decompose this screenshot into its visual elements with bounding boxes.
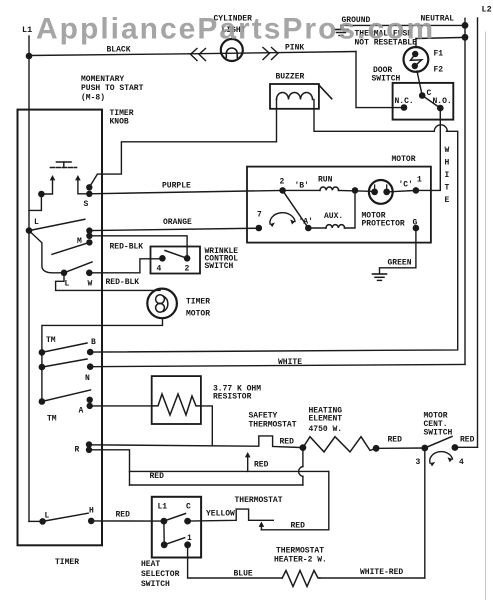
thermostat heater 2W [274, 547, 327, 587]
wire RED (H to heat selector L1) [91, 511, 164, 522]
heat selector switch [141, 497, 201, 589]
wire resistor to R-top net [201, 406, 212, 445]
svg-text:N: N [85, 374, 90, 383]
svg-text:4750 W.: 4750 W. [309, 425, 343, 434]
label WHITE (vertical, door switch wire) [445, 146, 450, 205]
svg-text:H: H [89, 507, 94, 516]
svg-text:RED: RED [280, 438, 295, 447]
svg-text:SELECTOR: SELECTOR [141, 570, 180, 579]
svg-text:SAFETY: SAFETY [249, 412, 278, 421]
push arrow 2 (to S) [75, 175, 89, 194]
buzzer [270, 73, 332, 109]
timer L/W contacts (lower) [61, 262, 93, 289]
svg-text:4: 4 [157, 265, 162, 274]
svg-text:WHITE-RED: WHITE-RED [360, 568, 403, 577]
svg-text:A: A [79, 407, 84, 416]
svg-text:E: E [445, 196, 450, 205]
motor terminal 1 'C' [387, 176, 422, 194]
cylinder light lamp [214, 15, 253, 62]
wire L1 feed (vertical into timer, down to H-switch) [28, 56, 30, 521]
svg-text:T: T [445, 184, 450, 193]
motor terminal 2 [279, 178, 309, 194]
wire BLACK (top horizontal) [29, 46, 356, 56]
svg-text:SWITCH: SWITCH [141, 580, 170, 589]
svg-text:L: L [65, 280, 70, 289]
connector chevrons right (>>) [263, 48, 278, 60]
node A contacts [79, 397, 93, 416]
wire WHITE (N to neutral) [90, 358, 465, 367]
ground (motor) [373, 274, 387, 280]
thermostat heater arrow [259, 522, 265, 530]
svg-text:THERMOSTAT: THERMOSTAT [235, 496, 283, 505]
svg-text:RED: RED [150, 472, 165, 481]
svg-text:MOTOR: MOTOR [186, 310, 210, 319]
node heating junction [300, 444, 307, 451]
wire RED-BLK (M to wrinkle control 2) [89, 236, 187, 258]
svg-text:C: C [427, 89, 432, 98]
svg-text:ELEMENT: ELEMENT [309, 415, 343, 424]
wire BLUE (heat selector 1 down) [188, 545, 283, 579]
svg-text:SWITCH: SWITCH [424, 429, 453, 438]
node NEUTRAL junction dots [462, 18, 469, 40]
wire timer motor top lead [56, 273, 160, 291]
svg-text:7: 7 [257, 211, 262, 220]
svg-text:'B': 'B' [295, 182, 309, 191]
svg-text:HEAT: HEAT [141, 560, 160, 569]
wire RED from R-bottom [89, 450, 329, 485]
heating element 4750 W [303, 407, 380, 452]
wire GREEN to ground [380, 228, 416, 273]
svg-text:TIMER: TIMER [55, 558, 79, 567]
motor terminal G [413, 219, 420, 232]
svg-text:1: 1 [417, 176, 422, 185]
svg-text:W: W [88, 280, 93, 289]
svg-text:ORANGE: ORANGE [163, 218, 192, 227]
svg-text:I: I [445, 171, 450, 180]
svg-text:THERMOSTAT: THERMOSTAT [276, 547, 324, 556]
motor AUX winding [308, 190, 355, 228]
svg-text:L1: L1 [158, 503, 168, 512]
wire R-top to safety thermostat / heating junction [89, 436, 303, 448]
wire PINK (to door switch N.C.) [285, 44, 404, 108]
timer H/L contacts (bottom) [29, 507, 94, 525]
svg-text:4: 4 [459, 458, 464, 467]
safety thermostat heater arrow [245, 452, 269, 471]
node N contact [85, 363, 93, 383]
svg-text:L: L [45, 512, 50, 521]
svg-text:RED: RED [254, 461, 269, 470]
svg-text:BLUE: BLUE [234, 570, 253, 579]
svg-text:2: 2 [185, 265, 190, 274]
svg-text:B: B [91, 338, 96, 347]
timer TM contacts [39, 336, 91, 424]
wrinkle control switch [151, 247, 239, 274]
svg-text:BLACK: BLACK [107, 46, 131, 55]
ground (top, at neutral) [334, 16, 371, 36]
resistor 3.77 K OHM [152, 376, 262, 424]
node S contacts [84, 184, 93, 209]
node B contact [87, 338, 96, 355]
wire NEUTRAL (top horizontal) [341, 15, 465, 26]
wire heating junction drop (hops RED wire) [130, 448, 303, 485]
svg-text:HEATER-2 W.: HEATER-2 W. [274, 556, 327, 565]
node M contacts [52, 227, 93, 254]
scan border artifact right edge [485, 32, 487, 600]
push arrow 1 [38, 175, 55, 197]
svg-text:H: H [445, 159, 450, 168]
wire A to resistor [90, 405, 152, 407]
svg-text:KNOB: KNOB [110, 118, 129, 127]
connector chevrons left (<<) [191, 49, 206, 61]
svg-text:TIMER: TIMER [186, 298, 210, 307]
node L1 [22, 25, 32, 59]
motor centrifugal switch [416, 412, 465, 468]
svg-text:RED-BLK: RED-BLK [106, 278, 140, 287]
node motor junction (RUN/AUX) [352, 187, 359, 194]
wire timer motor bottom lead (to TM column) [42, 318, 163, 401]
svg-text:L2: L2 [482, 5, 492, 15]
svg-text:TM: TM [46, 336, 56, 345]
label MOMENTARY PUSH TO START [81, 75, 144, 103]
wire YELLOW + operating thermostat [188, 496, 283, 521]
svg-text:3: 3 [416, 458, 421, 467]
label TIMER KNOB [110, 109, 134, 127]
wire push contact to L1 feed [29, 194, 41, 210]
svg-text:S: S [84, 200, 89, 209]
svg-text:AppliancePartsPros.com: AppliancePartsPros.com [36, 13, 435, 46]
timer L contact (upper) [26, 218, 85, 234]
wire L2 feed (right vertical down to motor cent. switch) [477, 18, 479, 447]
motor start switch blade (2 to A) [283, 190, 313, 231]
wire PURPLE (S to motor terminal 2) [89, 182, 282, 194]
svg-text:AUX.: AUX. [324, 212, 343, 221]
wire L to lower L contact [29, 231, 64, 273]
wire RED-BLK (W to wrinkle control 4) [89, 259, 162, 287]
motor protector [362, 180, 405, 229]
svg-text:TM: TM [47, 415, 57, 424]
wire door switch N.O. to motor terminal 1 [416, 108, 440, 190]
wire buzzer right leg (to timer B, hops over N.O. wire) [90, 100, 458, 353]
svg-text:L1: L1 [22, 25, 32, 35]
svg-text:BUZZER: BUZZER [276, 73, 305, 82]
svg-text:RESISTOR: RESISTOR [213, 393, 252, 402]
svg-text:THERMOSTAT: THERMOSTAT [249, 421, 297, 430]
svg-text:MOTOR: MOTOR [392, 155, 416, 164]
motor RUN winding [283, 176, 375, 192]
safety thermostat labels [249, 412, 297, 447]
svg-text:PROTECTOR: PROTECTOR [362, 220, 405, 229]
motor terminal 7 [255, 211, 262, 232]
thermal fuse F1/F2 [355, 30, 466, 96]
svg-text:PUSH TO START: PUSH TO START [81, 84, 144, 93]
node R contacts [75, 441, 93, 454]
timer motor [147, 289, 210, 319]
wire ORANGE (M to motor terminal 7) [89, 218, 258, 231]
push-to-start button (mechanical bar) [51, 162, 77, 168]
svg-text:RED: RED [116, 511, 131, 520]
svg-text:2: 2 [280, 178, 285, 187]
svg-text:PURPLE: PURPLE [162, 182, 191, 191]
motor box [247, 155, 431, 243]
wire neutral vertical (down right side to WHITE wire) [464, 37, 466, 364]
wire RED (element to cent. switch 3) [376, 436, 425, 449]
svg-text:C: C [186, 503, 191, 512]
svg-text:GREEN: GREEN [388, 259, 412, 268]
svg-text:RED: RED [460, 436, 475, 445]
svg-text:RED-BLK: RED-BLK [110, 243, 144, 252]
svg-text:R: R [75, 446, 80, 455]
svg-text:RED: RED [388, 436, 403, 445]
svg-text:MOMENTARY: MOMENTARY [81, 75, 124, 84]
svg-text:L: L [34, 218, 39, 227]
timer box [18, 110, 103, 567]
svg-text:SWITCH: SWITCH [205, 262, 234, 271]
wire RED (cent. switch 4 to L2) [455, 436, 478, 448]
svg-text:RUN: RUN [318, 176, 333, 185]
svg-text:F1: F1 [434, 50, 444, 59]
svg-text:'C': 'C' [399, 181, 413, 190]
node L2 [482, 5, 492, 15]
svg-text:(M-8): (M-8) [81, 94, 105, 103]
wire RED (bias heater loop) [261, 471, 328, 530]
svg-text:W: W [445, 146, 450, 155]
wire buzzer left leg (to timer S via y=142) [89, 100, 276, 188]
wire cent. switch 3 down to WHITE-RED [424, 448, 426, 578]
wire WHITE-RED (heater to cent. switch 3) [320, 568, 425, 578]
svg-text:F2: F2 [434, 66, 444, 75]
motor centrifugal arc (7-A) [270, 213, 295, 227]
svg-text:YELLOW: YELLOW [206, 510, 235, 519]
door switch [372, 66, 454, 120]
